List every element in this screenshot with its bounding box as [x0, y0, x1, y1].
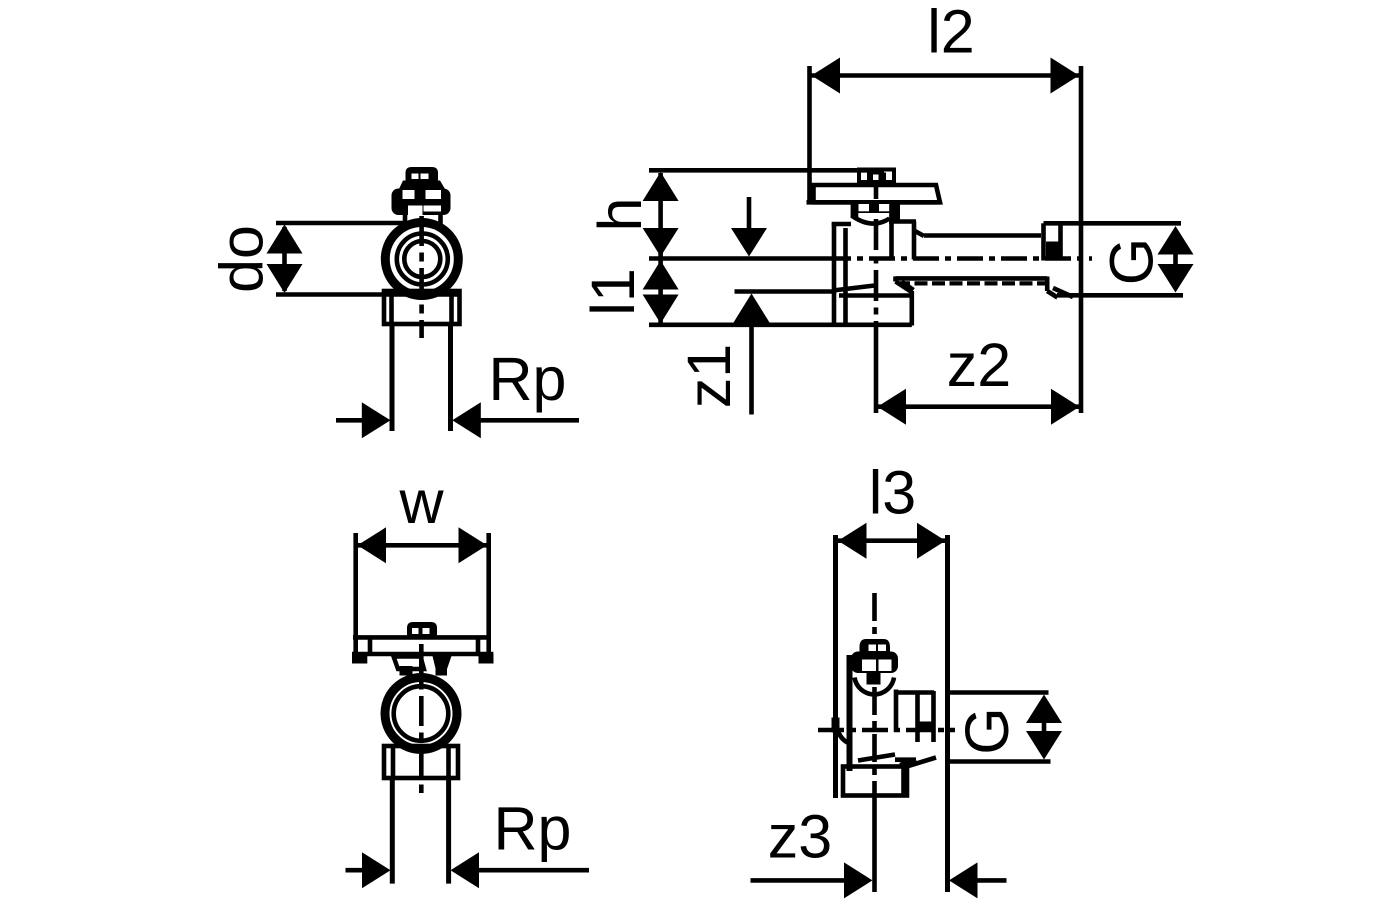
spindle step left — [851, 213, 859, 218]
collar black band — [1046, 242, 1059, 261]
dimension l3: left extension / handle plane line — [833, 535, 838, 798]
dimension l3: right arrowhead — [917, 523, 946, 559]
plate right end vertical — [1045, 277, 1050, 292]
body diagonal — [833, 286, 875, 291]
plate foot — [832, 718, 840, 733]
body top edge right — [889, 219, 916, 224]
body lower horizontal line — [839, 293, 912, 298]
dimension z3: left tail — [751, 878, 847, 883]
spindle block — [851, 203, 900, 214]
dimension z1: lower arrowhead up — [734, 294, 770, 323]
dimension z3: right tail — [977, 878, 1007, 883]
union nut outline — [843, 767, 907, 796]
ball inner circle — [404, 241, 440, 277]
dimension l3: right extension / wall plane line — [945, 535, 950, 892]
svg-text:z2: z2 — [947, 331, 1011, 399]
body left edge — [832, 223, 837, 326]
dimension w: left extension line — [353, 533, 358, 654]
union right vertical — [912, 222, 917, 260]
union nut right facet line — [449, 291, 454, 324]
dimension l2: left arrowhead — [812, 58, 841, 94]
collar black band — [916, 722, 936, 732]
dimension z1: upper arrow shaft — [747, 197, 752, 228]
vertical centerline — [872, 593, 877, 796]
union nut inner vertical — [901, 759, 906, 796]
svg-text:l2: l2 — [927, 0, 974, 66]
dimension l2: left extension line — [807, 66, 812, 202]
spindle neck right line — [438, 214, 443, 228]
dimension z1: lower arrow shaft — [749, 321, 754, 415]
horizontal centerline — [818, 728, 955, 733]
svg-text:Rp: Rp — [489, 345, 567, 413]
dimension Rp: left tail — [346, 868, 364, 873]
z3 left extension (centerline solid part) — [872, 796, 877, 892]
dimension do: bottom tangent line — [276, 292, 461, 297]
dimension G: arrowhead up — [1026, 695, 1062, 724]
union vertical — [894, 690, 899, 733]
body diagonal — [858, 755, 895, 761]
z2 left extension (centerline solid part) — [874, 330, 879, 413]
collar top edge — [1044, 221, 1061, 226]
G pipe top line — [1058, 221, 1181, 226]
svg-text:do: do — [208, 225, 276, 293]
plate end hatch diagonal 2 — [905, 758, 936, 768]
union nut right facet line — [446, 746, 451, 778]
horizontal centerline solid part — [649, 256, 825, 261]
dimension Rp: right arrowhead — [452, 402, 481, 438]
dimension w: right arrowhead — [459, 527, 488, 563]
inlet pipe left wall — [390, 324, 395, 431]
handle bar — [814, 185, 941, 202]
inlet pipe left wall — [390, 778, 395, 884]
dimension l2: right extension line (shared with z2) — [1079, 66, 1084, 413]
dimension Rp: right tail — [480, 418, 579, 423]
spindle hex nut — [851, 652, 898, 674]
body top edge left — [832, 222, 851, 227]
plate end hatch diagonal 1 — [900, 760, 916, 766]
dimension Rp: right tail — [478, 868, 589, 873]
dimension l1: arrowhead down — [643, 295, 679, 324]
dimension Rp: right arrowhead — [451, 852, 480, 888]
svg-text:h: h — [586, 198, 654, 232]
dimension G: arrowhead down — [1026, 731, 1062, 760]
dimension w: dimension line — [358, 543, 488, 548]
spindle trapezoid right — [433, 656, 452, 671]
dimension z3: left arrowhead — [844, 862, 873, 898]
dimension do: top tangent line — [276, 221, 405, 226]
svg-text:G: G — [1098, 238, 1166, 285]
outlet top line — [924, 233, 1041, 238]
spindle step right — [889, 213, 900, 221]
union nut left facet line — [389, 291, 394, 324]
dimension z3: right arrowhead — [949, 862, 978, 898]
dimension w: right extension line — [486, 533, 491, 655]
ball arc — [855, 678, 895, 695]
union nut outline — [384, 746, 458, 778]
G pipe bottom line — [949, 759, 1051, 764]
spindle neck left line — [403, 214, 408, 228]
body right lower vertical — [909, 291, 914, 326]
dimension l2: right arrowhead — [1051, 58, 1080, 94]
dimension z2: right arrowhead — [1051, 389, 1080, 425]
spindle hex nut body — [392, 189, 451, 216]
union nut outline — [384, 291, 460, 324]
dimension z2: left arrowhead — [878, 389, 907, 425]
dimension z1: upper arrowhead down — [731, 228, 767, 257]
plate right hatch — [1053, 288, 1073, 297]
collar right vertical — [931, 691, 936, 742]
dimension z2: dimension line — [878, 404, 1080, 409]
dimension G: arrow shaft — [1173, 250, 1178, 268]
spindle stem — [867, 671, 881, 685]
spindle base left — [400, 666, 413, 676]
svg-text:l3: l3 — [869, 459, 916, 527]
dimension h: arrowhead up — [643, 172, 679, 201]
svg-text:Rp: Rp — [494, 795, 572, 863]
plate top / outlet bottom line — [896, 276, 1048, 281]
spindle cap — [406, 167, 439, 181]
union left vertical — [889, 203, 894, 260]
handle boss — [407, 622, 437, 636]
union nut left facet line — [391, 746, 396, 778]
svg-text:w: w — [398, 468, 444, 536]
ball housing outer circle — [385, 223, 458, 296]
body left bar — [847, 655, 853, 771]
handle plate left inner line — [368, 637, 373, 654]
dimension l3: left arrowhead — [838, 523, 867, 559]
G pipe left edge — [1058, 222, 1063, 261]
outlet chamfer — [914, 231, 924, 237]
ball inner circle — [394, 686, 449, 741]
handle bottom line — [807, 200, 941, 205]
G pipe bottom line — [1057, 293, 1183, 298]
svg-text:l1: l1 — [579, 268, 647, 315]
dimension l2: dimension line — [812, 73, 1080, 78]
hidden thread dashed line — [897, 281, 1046, 285]
dimension G: arrowhead up — [1158, 226, 1194, 255]
handle plate right inner line — [476, 637, 481, 654]
horizontal centerline dash-dot — [825, 256, 1092, 261]
dimension l3: dimension line — [838, 538, 946, 543]
dimension Rp: left arrowhead — [362, 852, 391, 888]
dimension G: arrow shaft — [1042, 718, 1047, 736]
svg-text:z3: z3 — [768, 803, 832, 871]
dimension w: left arrowhead — [358, 527, 387, 563]
centerline vertical (top-left valve axis) — [419, 216, 424, 338]
spindle base right — [436, 666, 448, 676]
G pipe top line — [949, 690, 1049, 695]
vertical centerline of valve — [874, 168, 879, 330]
plate left chamfer inner — [902, 282, 914, 291]
handle boss — [859, 170, 894, 183]
handle plate bottom edge — [352, 652, 493, 657]
plate end hatch line short — [895, 757, 916, 762]
spindle trapezoid left — [394, 657, 425, 670]
dimension h/l1: dimension line — [658, 173, 663, 323]
body inner vertical — [843, 228, 848, 326]
ball housing outer circle — [385, 678, 457, 750]
handle left foot — [352, 654, 367, 664]
svg-text:G: G — [953, 707, 1021, 754]
z1 reference line — [735, 289, 834, 294]
centerline vertical — [419, 644, 424, 793]
collar left vertical — [915, 691, 920, 742]
handle right foot — [479, 654, 494, 664]
plate left chamfer outer — [896, 282, 912, 293]
dimension do: vertical dimension line — [282, 227, 287, 291]
dimension do: arrowhead down — [267, 264, 303, 293]
inlet pipe right wall — [448, 324, 453, 431]
dimension G: arrowhead down — [1158, 264, 1194, 293]
handle plate top edge — [353, 635, 491, 640]
reference line l1 bottom / body base — [649, 322, 912, 327]
plate hook curve — [836, 722, 851, 744]
spindle cap — [860, 639, 891, 653]
reference line h top — [649, 168, 884, 173]
outlet end step vertical — [1041, 223, 1046, 260]
dimension l1: arrowhead up — [643, 261, 679, 290]
dome fillet arc — [852, 216, 890, 224]
dimension do: arrowhead up — [267, 225, 303, 254]
ball middle circle — [397, 234, 448, 285]
plate right chamfer — [1047, 291, 1057, 298]
spindle collar tier — [399, 181, 445, 190]
plate left corner vertical — [893, 276, 898, 281]
dimension Rp: left arrowhead — [362, 402, 391, 438]
svg-text:z1: z1 — [675, 344, 743, 408]
inlet pipe right wall — [446, 778, 451, 884]
dimension h: arrowhead down — [643, 228, 679, 257]
dimension Rp: left tail — [336, 418, 363, 423]
outlet top line — [896, 690, 934, 695]
